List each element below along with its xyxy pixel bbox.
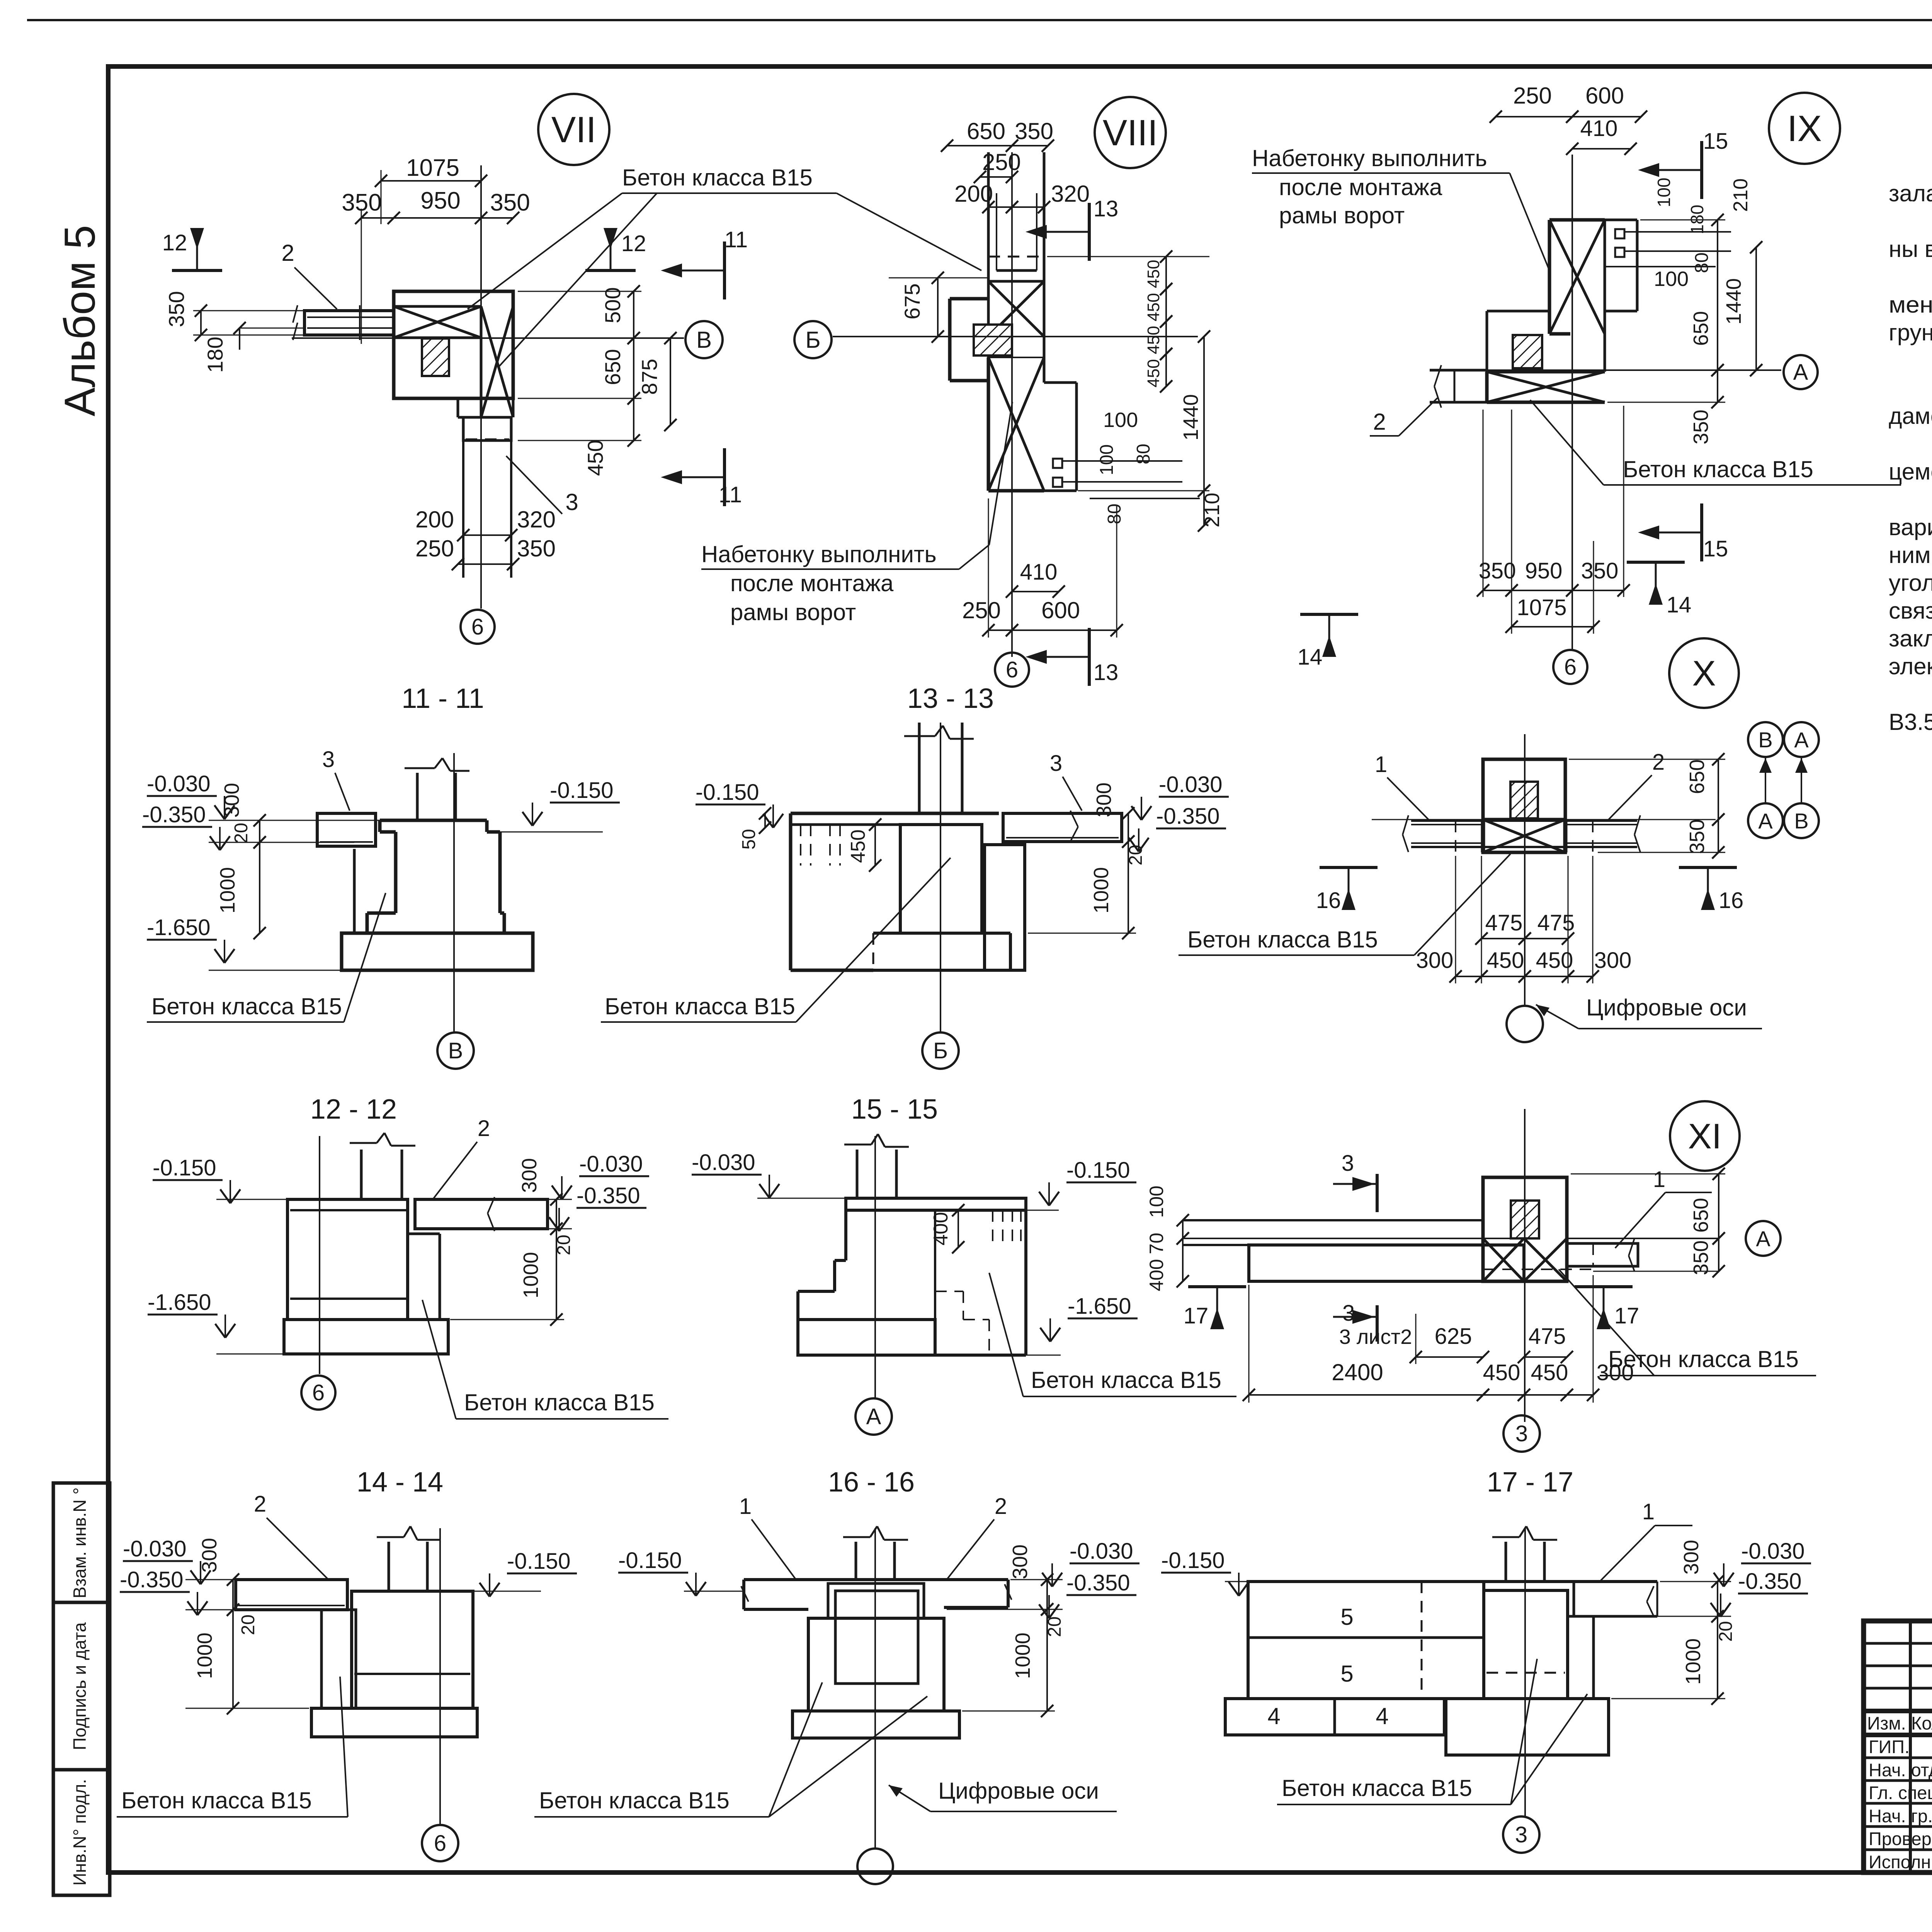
svg-text:Бетон класса В15: Бетон класса В15 <box>605 993 795 1019</box>
svg-text:Цифровые оси: Цифровые оси <box>1586 995 1747 1020</box>
svg-text:50: 50 <box>739 829 759 849</box>
svg-text:14: 14 <box>1667 592 1692 617</box>
svg-text:500: 500 <box>600 287 625 323</box>
svg-text:475: 475 <box>1485 910 1523 935</box>
svg-text:15 - 15: 15 - 15 <box>851 1094 938 1125</box>
svg-text:450: 450 <box>1531 1360 1568 1385</box>
svg-text:11: 11 <box>724 227 748 252</box>
svg-text:зала.: зала. <box>1889 180 1932 206</box>
svg-text:650: 650 <box>1685 759 1709 794</box>
svg-text:350: 350 <box>164 291 189 327</box>
svg-text:Набетонку выполнить: Набетонку выполнить <box>1252 145 1487 171</box>
svg-text:20: 20 <box>231 823 252 843</box>
svg-text:Бетон класса В15: Бетон класса В15 <box>121 1787 312 1813</box>
svg-text:20: 20 <box>1716 1621 1736 1641</box>
svg-text:Кол.уч: Кол.уч <box>1911 1713 1932 1733</box>
svg-text:-0.030: -0.030 <box>1070 1539 1133 1564</box>
svg-text:3: 3 <box>1050 751 1062 776</box>
svg-text:ними швами длиной не менее: ними швами длиной не менее 50 мм,обеспеч… <box>1889 542 1932 568</box>
svg-text:350: 350 <box>1015 118 1053 144</box>
svg-text:320: 320 <box>517 507 556 532</box>
svg-text:250: 250 <box>1513 83 1552 109</box>
section 11-11 <box>142 683 620 1069</box>
svg-text:-0.150: -0.150 <box>618 1548 682 1573</box>
svg-text:100: 100 <box>1103 408 1138 432</box>
svg-text:13: 13 <box>1094 196 1119 221</box>
svg-text:Бетон класса В15: Бетон класса В15 <box>1608 1346 1799 1372</box>
svg-text:Бетон класса В15: Бетон класса В15 <box>1623 456 1813 482</box>
svg-text:475: 475 <box>1537 910 1575 935</box>
svg-text:450: 450 <box>1144 359 1163 387</box>
svg-text:Б: Б <box>933 1038 948 1063</box>
svg-text:1: 1 <box>739 1494 752 1519</box>
svg-text:410: 410 <box>1020 560 1058 585</box>
svg-text:Цифровые оси: Цифровые оси <box>938 1778 1099 1804</box>
svg-text:-0.030: -0.030 <box>579 1151 643 1177</box>
svg-text:450: 450 <box>1483 1360 1520 1385</box>
svg-text:5: 5 <box>1340 1604 1353 1630</box>
svg-text:675: 675 <box>900 283 924 319</box>
plan X <box>1179 722 1819 1042</box>
svg-text:300: 300 <box>518 1158 541 1193</box>
svg-text:450: 450 <box>1536 948 1573 973</box>
svg-text:450: 450 <box>1487 948 1524 973</box>
section 15-15 <box>692 1094 1236 1435</box>
svg-text:после монтажа: после монтажа <box>730 570 894 596</box>
svg-text:А: А <box>1756 1226 1770 1251</box>
svg-text:12 - 12: 12 - 12 <box>310 1094 397 1125</box>
plan VII <box>162 155 748 644</box>
svg-text:связывающая вертикальный про: связывающая вертикальный продольный стер… <box>1889 598 1932 624</box>
svg-text:Нач. отд.: Нач. отд. <box>1869 1760 1932 1780</box>
svg-text:650: 650 <box>1689 1198 1713 1233</box>
section 16-16 <box>534 1467 1139 1884</box>
svg-text:уголка в уровне обреза фун: уголка в уровне обреза фундамента. По ни… <box>1889 570 1932 596</box>
svg-text:Взам. инв.N °: Взам. инв.N ° <box>70 1487 90 1598</box>
svg-text:6: 6 <box>1564 655 1577 680</box>
svg-text:1075: 1075 <box>406 155 459 181</box>
plan XI <box>1146 1109 1816 1452</box>
svg-text:16 - 16: 16 - 16 <box>828 1467 915 1498</box>
svg-text:1000: 1000 <box>1682 1638 1705 1685</box>
margin box podpis <box>53 1602 110 1770</box>
svg-text:Инв.N° подл.: Инв.N° подл. <box>70 1779 90 1886</box>
svg-text:1000: 1000 <box>216 867 239 913</box>
label nabetonku VIII <box>701 402 1012 625</box>
svg-text:Бетон класса В15: Бетон класса В15 <box>1187 927 1378 952</box>
svg-text:3: 3 <box>322 747 335 772</box>
svg-text:Набетонку выполнить: Набетонку выполнить <box>701 541 937 567</box>
svg-text:3: 3 <box>1515 1421 1528 1446</box>
svg-text:100: 100 <box>1097 444 1117 475</box>
svg-text:1440: 1440 <box>1179 394 1202 440</box>
svg-text:12: 12 <box>621 231 646 256</box>
svg-text:13 - 13: 13 - 13 <box>907 683 994 714</box>
svg-text:1075: 1075 <box>1517 595 1566 620</box>
svg-text:1000: 1000 <box>193 1633 216 1679</box>
svg-text:875: 875 <box>637 359 662 395</box>
svg-text:350: 350 <box>517 536 556 561</box>
svg-text:Бетон класса В15: Бетон класса В15 <box>1031 1367 1221 1393</box>
section VII circle <box>538 94 609 165</box>
svg-text:350: 350 <box>1479 558 1516 583</box>
svg-text:после монтажа: после монтажа <box>1279 174 1442 200</box>
svg-text:210: 210 <box>1730 179 1752 212</box>
svg-text:6: 6 <box>434 1831 446 1856</box>
section 17-17 <box>1161 1467 1811 1853</box>
svg-text:350: 350 <box>1581 558 1619 583</box>
svg-text:100: 100 <box>1654 178 1674 207</box>
svg-text:В3.5 толщиной 100 мм.: В3.5 толщиной 100 мм. <box>1889 709 1932 735</box>
svg-text:3 лист2: 3 лист2 <box>1339 1325 1412 1349</box>
section 14-14 <box>117 1467 577 1861</box>
svg-text:В: В <box>1794 809 1808 833</box>
svg-text:350: 350 <box>1689 410 1713 444</box>
svg-text:-0.030: -0.030 <box>1741 1539 1804 1564</box>
svg-text:6: 6 <box>1006 657 1018 682</box>
svg-text:2400: 2400 <box>1332 1359 1383 1385</box>
svg-text:В: В <box>1758 728 1772 752</box>
svg-text:80: 80 <box>1133 444 1154 464</box>
svg-text:Изм.: Изм. <box>1867 1713 1906 1733</box>
svg-text:300: 300 <box>1416 948 1454 973</box>
svg-text:В: В <box>448 1038 463 1063</box>
svg-text:650: 650 <box>600 349 625 385</box>
svg-text:200: 200 <box>954 181 993 207</box>
svg-text:400: 400 <box>930 1212 952 1246</box>
svg-text:Бетон класса В15: Бетон класса В15 <box>151 993 342 1019</box>
svg-text:250: 250 <box>982 149 1021 175</box>
svg-text:350: 350 <box>490 189 530 216</box>
svg-text:2: 2 <box>478 1116 490 1141</box>
svg-text:3: 3 <box>565 489 578 515</box>
svg-text:4: 4 <box>1267 1703 1280 1729</box>
svg-text:14: 14 <box>1298 645 1323 670</box>
svg-text:320: 320 <box>1051 181 1090 207</box>
svg-text:варить к вертикальному стер: варить к вертикальному стержню армирован… <box>1889 514 1932 540</box>
svg-text:-0.150: -0.150 <box>550 778 613 803</box>
svg-text:3: 3 <box>1342 1151 1354 1176</box>
notes text block <box>1889 153 1932 763</box>
svg-text:17: 17 <box>1184 1303 1209 1328</box>
svg-text:650: 650 <box>967 118 1005 144</box>
svg-text:17 - 17: 17 - 17 <box>1487 1467 1573 1498</box>
svg-text:Х: Х <box>1692 654 1716 693</box>
svg-text:600: 600 <box>1585 83 1624 109</box>
svg-text:100: 100 <box>1654 267 1689 291</box>
svg-text:16: 16 <box>1316 888 1341 913</box>
svg-text:цементного раствора марки 5: цементного раствора марки 50 состава 1:2… <box>1889 459 1932 485</box>
svg-text:400: 400 <box>1146 1259 1167 1291</box>
svg-text:300: 300 <box>1009 1544 1032 1579</box>
svg-text:14 - 14: 14 - 14 <box>357 1467 443 1498</box>
svg-text:20: 20 <box>238 1614 259 1635</box>
svg-text:450: 450 <box>1144 326 1163 354</box>
svg-text:даментную балку тщательно о: даментную балку тщательно очистить и вып… <box>1889 403 1932 429</box>
svg-text:250: 250 <box>962 597 1001 623</box>
svg-text:450: 450 <box>1144 260 1163 288</box>
label beton B15 top <box>468 165 981 367</box>
svg-text:А: А <box>1758 809 1773 833</box>
svg-text:А: А <box>866 1404 881 1429</box>
svg-text:1: 1 <box>1642 1499 1655 1524</box>
svg-text:180: 180 <box>203 337 227 372</box>
svg-text:2: 2 <box>995 1494 1007 1519</box>
svg-text:950: 950 <box>1525 558 1563 583</box>
section X circle <box>1669 638 1739 708</box>
svg-text:XI: XI <box>1688 1117 1722 1156</box>
svg-text:650: 650 <box>1689 311 1713 346</box>
svg-text:-0.350: -0.350 <box>1066 1570 1130 1595</box>
svg-text:300: 300 <box>220 783 243 818</box>
section IX circle <box>1769 93 1840 164</box>
svg-text:300: 300 <box>1092 782 1116 817</box>
margin box vzam <box>53 1483 110 1602</box>
svg-text:А: А <box>1794 728 1809 752</box>
svg-text:11: 11 <box>719 482 742 507</box>
svg-text:ментам каркаса, выполнить из: ментам каркаса, выполнить из послойно уп… <box>1889 292 1932 318</box>
svg-text:Нач. гр.: Нач. гр. <box>1869 1806 1932 1826</box>
svg-text:17: 17 <box>1614 1303 1639 1328</box>
svg-text:-0.150: -0.150 <box>507 1549 570 1574</box>
section 13-13 <box>601 683 1229 1069</box>
svg-text:-0.350: -0.350 <box>577 1183 640 1208</box>
svg-text:Альбом 5: Альбом 5 <box>56 225 104 416</box>
svg-text:80: 80 <box>1104 503 1125 524</box>
svg-text:1: 1 <box>1653 1167 1665 1192</box>
svg-text:1: 1 <box>1375 752 1387 777</box>
svg-text:Провер.: Провер. <box>1869 1828 1932 1849</box>
svg-text:950: 950 <box>420 187 460 214</box>
svg-text:В: В <box>696 327 712 353</box>
svg-text:-0.150: -0.150 <box>1161 1548 1225 1573</box>
svg-text:Б: Б <box>805 327 820 353</box>
svg-text:625: 625 <box>1435 1324 1472 1349</box>
svg-text:-0.150: -0.150 <box>696 780 759 805</box>
svg-text:Гл. спец.: Гл. спец. <box>1869 1782 1932 1803</box>
svg-text:Исполн.: Исполн. <box>1869 1852 1932 1872</box>
svg-text:-0.350: -0.350 <box>142 802 206 827</box>
svg-text:2: 2 <box>1373 409 1386 435</box>
svg-text:1000: 1000 <box>519 1252 543 1298</box>
svg-text:1000: 1000 <box>1011 1633 1034 1679</box>
svg-text:16: 16 <box>1719 888 1744 913</box>
svg-text:12: 12 <box>162 230 187 255</box>
svg-text:VIII: VIII <box>1103 112 1158 153</box>
svg-text:2: 2 <box>281 240 294 266</box>
svg-text:Подпись и дата: Подпись и дата <box>70 1622 90 1750</box>
svg-text:350: 350 <box>1689 1240 1713 1275</box>
sheet edge top line <box>27 19 1932 21</box>
svg-text:13: 13 <box>1094 660 1119 685</box>
section 12-12 <box>148 1094 668 1419</box>
label nabetonku IX <box>1252 145 1549 270</box>
svg-text:ГИП.: ГИП. <box>1869 1736 1910 1757</box>
svg-text:1440: 1440 <box>1722 278 1745 325</box>
svg-text:600: 600 <box>1041 597 1080 623</box>
svg-text:475: 475 <box>1529 1324 1566 1349</box>
svg-text:450: 450 <box>583 440 607 476</box>
svg-text:80: 80 <box>1692 252 1712 273</box>
svg-text:Бетон класса В15: Бетон класса В15 <box>539 1787 730 1813</box>
svg-text:4: 4 <box>1376 1703 1388 1729</box>
svg-text:300: 300 <box>1594 948 1632 973</box>
svg-text:А: А <box>1793 360 1808 385</box>
svg-text:250: 250 <box>415 536 454 561</box>
svg-text:-0.150: -0.150 <box>153 1155 216 1180</box>
svg-text:450: 450 <box>1144 293 1163 321</box>
svg-text:-0.030: -0.030 <box>123 1536 186 1561</box>
svg-text:450: 450 <box>847 830 869 863</box>
plan VIII <box>794 118 1358 687</box>
svg-text:-0.350: -0.350 <box>1738 1569 1801 1594</box>
svg-text:-0.030: -0.030 <box>1159 772 1222 797</box>
svg-text:грунта с доведением плотнос: грунта с доведением плотности грунта до … <box>1889 318 1932 345</box>
section XI circle <box>1670 1101 1740 1171</box>
svg-text:5: 5 <box>1340 1661 1353 1687</box>
svg-text:2: 2 <box>254 1492 266 1517</box>
svg-text:-0.030: -0.030 <box>147 771 210 796</box>
svg-text:300: 300 <box>198 1538 221 1573</box>
svg-text:15: 15 <box>1703 536 1728 561</box>
svg-text:100: 100 <box>1146 1185 1167 1218</box>
svg-text:-1.650: -1.650 <box>147 915 210 940</box>
svg-text:70: 70 <box>1146 1233 1167 1254</box>
svg-text:-0.350: -0.350 <box>120 1567 183 1592</box>
svg-text:Бетон класса В15: Бетон класса В15 <box>464 1389 655 1415</box>
svg-text:1000: 1000 <box>1090 867 1113 913</box>
svg-text:-0.150: -0.150 <box>1066 1158 1130 1183</box>
title block outer <box>1864 1621 1932 1872</box>
svg-text:-0.030: -0.030 <box>692 1150 755 1175</box>
svg-text:3: 3 <box>1515 1822 1527 1847</box>
svg-text:6: 6 <box>312 1380 325 1405</box>
svg-text:-0.350: -0.350 <box>1156 804 1219 829</box>
svg-text:410: 410 <box>1580 116 1618 141</box>
svg-text:Бетон класса В15: Бетон класса В15 <box>622 165 813 190</box>
section VIII circle <box>1095 97 1166 168</box>
svg-text:6: 6 <box>471 614 484 639</box>
svg-text:2: 2 <box>1652 750 1665 775</box>
svg-text:-1.650: -1.650 <box>148 1290 211 1315</box>
svg-text:350: 350 <box>1685 819 1709 854</box>
svg-text:IX: IX <box>1787 108 1822 149</box>
svg-text:15: 15 <box>1703 129 1728 154</box>
plan IX <box>1370 83 1901 684</box>
svg-text:рамы ворот: рамы ворот <box>730 599 856 625</box>
svg-text:200: 200 <box>415 507 454 532</box>
svg-text:ны в пояснительной записке к т: ны в пояснительной записке к типовому пр… <box>1889 236 1932 262</box>
svg-text:электрической цепи заземлени: электрической цепи заземления. <box>1889 653 1932 679</box>
svg-text:11 - 11: 11 - 11 <box>401 683 484 714</box>
svg-text:VII: VII <box>551 109 596 150</box>
svg-text:закладное изделие,с арматуро: закладное изделие,с арматурой подошвы дл… <box>1889 626 1932 651</box>
svg-text:-1.650: -1.650 <box>1068 1294 1131 1319</box>
signature table header <box>1867 1713 1932 1872</box>
margin box inv <box>53 1770 110 1895</box>
svg-text:Бетон класса В15: Бетон класса В15 <box>1282 1775 1472 1801</box>
svg-text:рамы ворот: рамы ворот <box>1279 202 1405 228</box>
svg-text:300: 300 <box>1680 1540 1703 1575</box>
